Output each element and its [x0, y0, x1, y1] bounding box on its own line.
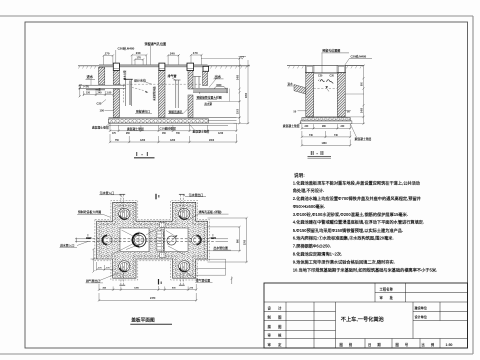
- left pipe stub lines: [75, 238, 88, 240]
- svg-text:进水: 进水: [288, 82, 294, 86]
- small dim under inlet pipe: [83, 91, 115, 96]
- svg-text:审 定: 审 定: [268, 342, 285, 347]
- svg-text:出水管: 出水管: [205, 102, 213, 106]
- outlet tee stub below pipe: [199, 92, 201, 94]
- title block vertical lines: [286, 283, 440, 348]
- soil ticks left: [288, 66, 303, 69]
- section cut mark I right: [211, 237, 217, 239]
- inlet pipe wedge (hatched) at left: [294, 85, 306, 95]
- diagonal leader lines center: [111, 228, 185, 256]
- outer dashed boundary: [95, 201, 209, 281]
- left small horizontal dim: [96, 262, 114, 271]
- svg-text:盖板平面图: 盖板平面图: [131, 317, 155, 324]
- cushion layer: [300, 121, 352, 124]
- svg-text:工程名称: 工程名称: [380, 286, 394, 291]
- left wall: [306, 73, 314, 117]
- svg-text:3.Φ100砼,Φ100水泥砂浆,Φ200混凝土,钢筋的保护: 3.Φ100砼,Φ100水泥砂浆,Φ200混凝土,钢筋的保护层厚15毫米.: [293, 211, 408, 218]
- scanned sheet top edge: [0, 15, 473, 17]
- section cut mark II bottom: [158, 279, 160, 285]
- svg-text:清掏孔盖板,(详图): 清掏孔盖板,(详图): [198, 209, 222, 214]
- dim row 2: [301, 131, 352, 138]
- inlet drop tee in chamber 1: [124, 79, 133, 106]
- svg-text:1450: 1450: [361, 107, 364, 113]
- wall C (between chamber 1 and 2): [159, 71, 166, 118]
- middle vent dashed risers: [160, 223, 162, 258]
- extension lines to right dims: [201, 59, 249, 124]
- svg-text:预留清扫口: 预留清扫口: [136, 110, 150, 114]
- svg-text:排气管: 排气管: [168, 73, 177, 78]
- leader from inlet label to pipe: [90, 79, 92, 85]
- ground/slab thick gray band: [99, 65, 208, 67]
- vent pipe in chamber 2: [174, 80, 181, 108]
- center big access circle: [131, 232, 148, 249]
- wall D lower: [188, 95, 193, 118]
- central white panel left: [120, 228, 149, 252]
- svg-text:出水: 出水: [215, 74, 222, 79]
- leader from outlet label to pipe: [209, 79, 216, 88]
- svg-text:设 计: 设 计: [268, 305, 285, 310]
- pipe collar trapezoid: [214, 87, 226, 89]
- svg-text:设计水位: 设计水位: [134, 78, 146, 83]
- neck box at wall B: [113, 63, 119, 70]
- small vent boxes bottom middle: [160, 252, 165, 257]
- svg-text:预留接管位置大样图: 预留接管位置大样图: [197, 95, 222, 99]
- cross-shaped slab outline with stipple fill: [97, 202, 208, 278]
- scanned sheet bottom edge: [0, 353, 473, 355]
- nested dims 240/170 over chamber 1 opening: [131, 54, 148, 65]
- svg-text:170: 170: [193, 51, 198, 55]
- svg-text:2000: 2000: [209, 140, 215, 142]
- svg-text:1480: 1480: [322, 142, 328, 145]
- svg-text:比 例: 比 例: [422, 342, 437, 347]
- svg-text:出水管位置: 出水管位置: [214, 245, 229, 250]
- cushion edge line: [109, 124, 229, 126]
- horizontal pipe dashed lines: [88, 238, 216, 240]
- broken slab squiggles inside top: [320, 80, 333, 84]
- right pipe stub lines: [216, 238, 229, 240]
- svg-text:4.化粪池建在中警戒醒位置浸湿底板填,在浮动下平面的水管进行: 4.化粪池建在中警戒醒位置浸湿底板填,在浮动下平面的水管进行算填定.: [293, 219, 424, 226]
- svg-text:审 批: 审 批: [380, 295, 396, 300]
- svg-text:1260: 1260: [140, 140, 146, 142]
- top-left riser pipe: [119, 194, 125, 214]
- hidden riser dashed in inlet well: [122, 85, 124, 103]
- svg-text:不上车,一号化粪池: 不上车,一号化粪池: [341, 315, 385, 323]
- floor line: [109, 117, 237, 119]
- svg-text:设计单位: 设计单位: [415, 314, 428, 319]
- svg-text:1000: 1000: [238, 108, 240, 114]
- ground line: [287, 65, 364, 67]
- svg-text:C20砼,M480: C20砼,M480: [118, 45, 135, 50]
- svg-text:预留孔位置图: 预留孔位置图: [322, 48, 340, 53]
- svg-text:排气管位置: 排气管位置: [196, 278, 211, 283]
- right vertical dim chain 2: [247, 60, 249, 124]
- ladder rungs between panels: [157, 231, 163, 251]
- leader to right cover: [344, 58, 349, 66]
- wall D upper (between chamber 2 and outlet well): [188, 71, 193, 90]
- right vertical dim chain 1: [238, 57, 240, 124]
- bottom dim row 2: [109, 134, 238, 143]
- title block outer border: [264, 283, 468, 348]
- svg-text:Φ50>H≥500毫米.: Φ50>H≥500毫米.: [293, 203, 325, 210]
- soil ticks right: [346, 66, 361, 69]
- neck box at wall E: [203, 66, 209, 71]
- svg-text:进水管入口: 进水管入口: [60, 243, 75, 248]
- svg-text:C10素砼垫层: C10素砼垫层: [160, 126, 177, 130]
- bottom-left riser pipe: [119, 266, 125, 285]
- outlet tee in outlet well: [193, 77, 201, 89]
- dim 170 over chamber 2 opening: [167, 54, 180, 65]
- leader down from label: [321, 53, 323, 73]
- neck box at wall C: [159, 63, 165, 70]
- right vertical dim: [362, 64, 364, 125]
- right wall: [337, 73, 345, 117]
- title block horizontal lines: [264, 292, 468, 338]
- svg-text:污水管入口: 污水管入口: [100, 190, 115, 195]
- slab lines between necks: [314, 72, 337, 74]
- svg-text:排气管出口: 排气管出口: [86, 278, 101, 283]
- svg-text:预留连通孔: 预留连通孔: [169, 110, 183, 114]
- inner dashed boundary: [100, 205, 205, 275]
- small tick below outlet label right: [231, 277, 233, 285]
- water level dashed line: [119, 83, 202, 85]
- svg-text:1.化粪池盖板须车不能对重车地段,井盖设置应砌筑在干道上,公: 1.化粪池盖板须车不能对重车地段,井盖设置应砌筑在干道上,公共活动: [293, 180, 421, 187]
- left inlet well circle: [102, 235, 112, 245]
- svg-text:5.Φ150预留孔均采用Φ150铸铁管预埋,以实际土建为准产: 5.Φ150预留孔均采用Φ150铸铁管预埋,以实际土建为准产品.: [293, 227, 403, 234]
- right outlet well circle: [192, 235, 202, 245]
- svg-text:1760: 1760: [245, 239, 247, 245]
- level marker triangle right: [241, 57, 244, 60]
- svg-text:水泥砂浆抹面: 水泥砂浆抹面: [152, 86, 156, 101]
- svg-text:170: 170: [105, 52, 110, 56]
- svg-text:150: 150: [86, 92, 91, 95]
- svg-text:C20: C20: [318, 75, 323, 78]
- svg-text:I - I: I - I: [136, 152, 149, 158]
- svg-text:i=1%: i=1%: [84, 86, 89, 88]
- svg-text:2.化粪池水箱上均应设置Φ700铸铁井盖及井座中的通风高程定: 2.化粪池水箱上均应设置Φ700铸铁井盖及井座中的通风高程定,预留井: [293, 195, 422, 202]
- extension lines to right dim: [345, 66, 364, 124]
- central white panel right: [165, 228, 189, 252]
- ground line: [78, 65, 250, 67]
- svg-text:240: 240: [98, 92, 103, 95]
- top-left lobe manhole circle: [119, 208, 130, 219]
- level marker on water line: [325, 86, 328, 88]
- top-right lobe manhole circle: [179, 208, 190, 219]
- leader from collar label: [115, 50, 117, 65]
- svg-text:II - II: II - II: [311, 151, 325, 157]
- bottom dim row 1: [98, 284, 198, 291]
- right manhole neck box: [337, 65, 346, 72]
- soil hatch ticks left of tank: [78, 66, 96, 69]
- svg-text:3050: 3050: [246, 92, 248, 98]
- svg-text:审 核: 审 核: [268, 332, 285, 337]
- svg-text:240: 240: [136, 51, 141, 55]
- wall E upper (outer right wall): [203, 71, 208, 85]
- floor line: [306, 116, 345, 118]
- bottom dim row 1: [109, 124, 238, 133]
- center-right circle with arrow: [167, 235, 178, 245]
- svg-text:素混凝土垫层: 素混凝土垫层: [355, 137, 372, 141]
- svg-text:C20: C20: [330, 75, 335, 78]
- svg-text:240: 240: [170, 51, 175, 55]
- svg-text:150: 150: [100, 109, 105, 113]
- inlet pipe: [79, 84, 126, 86]
- wall B lower: [113, 89, 119, 118]
- svg-text:C25: C25: [97, 101, 102, 105]
- svg-text:进水立管: 进水立管: [122, 70, 126, 80]
- wall A upper (outer left wall of inlet well): [99, 67, 105, 84]
- upper-right extension lines and vertical dims: [208, 217, 248, 263]
- svg-text:预留通气孔位置: 预留通气孔位置: [145, 41, 167, 46]
- dim row 1: [301, 124, 352, 129]
- svg-text:2470: 2470: [150, 297, 156, 300]
- svg-text:10.当地下印规筑基础期于米基础时,如同规筑基础与米基础的横: 10.当地下印规筑基础期于米基础时,如同规筑基础与米基础的横离率不小于5米.: [293, 267, 437, 274]
- dim 170 over inlet well: [103, 54, 115, 64]
- svg-text:描 图: 描 图: [268, 324, 285, 329]
- svg-text:8.化粪池应定期清掏1~2次.: 8.化粪池应定期清掏1~2次.: [293, 251, 342, 258]
- svg-text:预制砼盖板大样图: 预制砼盖板大样图: [78, 209, 101, 214]
- scanned sheet right edge: [472, 16, 474, 354]
- svg-text:6.池内爬梯见:①水政标准图集,②水政构筑图,围20毫米.: 6.池内爬梯见:①水政标准图集,②水政构筑图,围20毫米.: [293, 235, 394, 242]
- svg-text:制 图: 制 图: [268, 315, 285, 320]
- dashed flow line with arrow in chamber 1: [132, 88, 147, 92]
- bottom dim row 2 overall: [98, 293, 198, 302]
- svg-text:1450: 1450: [237, 74, 240, 80]
- water level dashed: [314, 88, 338, 90]
- dim row 3 overall: [301, 140, 352, 147]
- inlet pipe bedding gray band: [86, 89, 105, 91]
- svg-text:1:50: 1:50: [107, 92, 112, 95]
- svg-text:7.爬梯钢筋Φ6@250.: 7.爬梯钢筋Φ6@250.: [293, 243, 331, 250]
- svg-text:角处理,不另设计.: 角处理,不另设计.: [293, 187, 325, 194]
- section cut mark II top: [155, 194, 157, 200]
- svg-text:I: I: [88, 234, 89, 238]
- top-right riser pipe: [179, 194, 185, 214]
- svg-text:说明:: 说明:: [294, 172, 305, 179]
- heavy arcs on lobe circles: [120, 216, 187, 272]
- svg-text:M20: M20: [217, 84, 222, 87]
- neck box at wall D: [187, 63, 194, 70]
- inlet pipe break tick: [80, 84, 82, 90]
- bottom-right riser pipe: [179, 266, 185, 285]
- left vertical mini dim: [79, 84, 81, 97]
- svg-text:I: I: [213, 234, 214, 238]
- dim 170 over outlet well: [190, 54, 203, 65]
- small arrows in chamber: [318, 78, 321, 81]
- soil hatch ticks right of tank: [210, 66, 247, 69]
- svg-text:1240: 1240: [218, 132, 224, 135]
- svg-text:170: 170: [137, 56, 142, 60]
- svg-text:建设单位: 建设单位: [415, 305, 428, 310]
- svg-text:1280: 1280: [134, 288, 140, 290]
- leader for vent hole label: [150, 46, 152, 65]
- svg-text:进水: 进水: [87, 74, 94, 79]
- wall B (inlet well inner wall) below neck: [113, 71, 119, 85]
- left manhole neck box: [305, 65, 314, 72]
- svg-text:图 别: 图 别: [340, 342, 355, 347]
- outlet pipe (gray filled): [193, 89, 228, 92]
- bottom slab stippled: [302, 118, 350, 121]
- left small vertical dim: [91, 248, 97, 273]
- svg-text:污水管出口: 污水管出口: [189, 192, 204, 197]
- svg-text:1260: 1260: [170, 140, 176, 142]
- small vent boxes top middle: [160, 222, 165, 227]
- svg-text:图 号: 图 号: [396, 342, 411, 347]
- bottom slab stippled: [109, 119, 209, 123]
- bottom-right lobe manhole circle: [179, 261, 190, 272]
- section cut mark I left: [86, 237, 92, 239]
- svg-text:日 期: 日 期: [368, 342, 383, 347]
- bottom-left lobe manhole circle: [119, 261, 130, 272]
- right leader lines to labels: [196, 259, 226, 275]
- svg-text:1:50: 1:50: [446, 343, 453, 347]
- svg-text:9.池体施工完毕须作满水试验合格后回填二次,随时夯实.: 9.池体施工完毕须作满水试验合格后回填二次,随时夯实.: [293, 259, 395, 266]
- svg-text:C20砼,M480: C20砼,M480: [351, 54, 367, 58]
